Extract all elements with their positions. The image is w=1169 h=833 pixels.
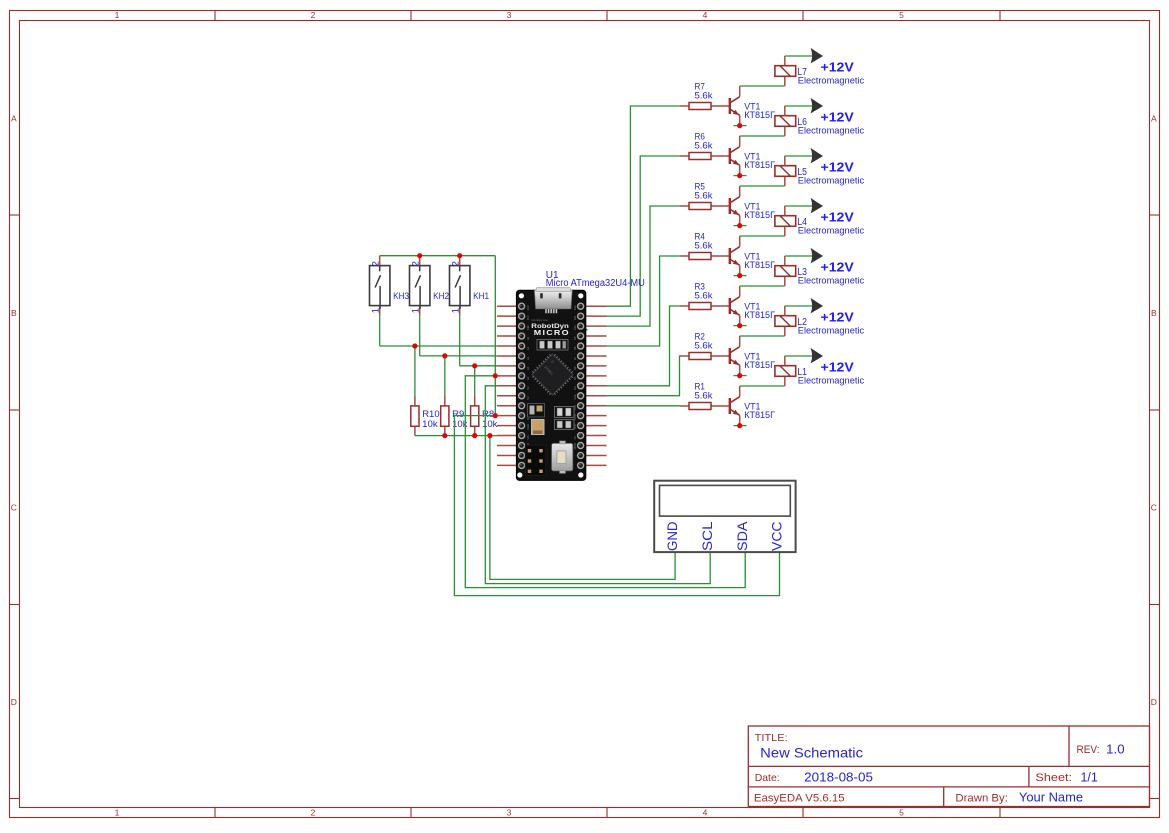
svg-text:2: 2 — [410, 261, 421, 266]
svg-text:Sheet:: Sheet: — [1035, 772, 1072, 784]
svg-text:TITLE:: TITLE: — [755, 732, 788, 744]
svg-text:КТ815Г: КТ815Г — [744, 310, 775, 321]
svg-text:1: 1 — [450, 308, 461, 313]
svg-text:КТ815Г: КТ815Г — [744, 260, 775, 271]
svg-text:GND: GND — [526, 424, 530, 430]
svg-text:КТ815Г: КТ815Г — [744, 410, 775, 421]
svg-text:D8: D8 — [573, 346, 577, 350]
svg-text:REV:: REV: — [1077, 744, 1100, 756]
svg-text:D6: D6 — [573, 366, 577, 370]
svg-text:Electromagnetic: Electromagnetic — [798, 76, 865, 87]
svg-text:D: D — [1151, 697, 1157, 707]
svg-text:2: 2 — [311, 808, 316, 818]
svg-text:A4: A4 — [526, 376, 530, 380]
svg-text:Drawn By:: Drawn By: — [955, 792, 1008, 804]
svg-text:КТ815Г: КТ815Г — [744, 160, 775, 171]
svg-text:KH1: KH1 — [473, 291, 489, 302]
svg-text:D: D — [11, 697, 17, 707]
svg-text:10k: 10k — [482, 419, 498, 430]
svg-text:3V3: 3V3 — [526, 315, 530, 320]
svg-text:KH3: KH3 — [393, 291, 409, 302]
svg-text:5: 5 — [899, 10, 904, 20]
svg-text:+12V: +12V — [821, 210, 855, 224]
svg-text:+12V: +12V — [821, 110, 855, 124]
svg-text:EasyEDA V5.6.15: EasyEDA V5.6.15 — [754, 792, 845, 804]
svg-text:B: B — [1151, 308, 1157, 318]
svg-text:Date:: Date: — [755, 772, 780, 784]
svg-text:SS: SS — [573, 436, 577, 440]
svg-text:1: 1 — [115, 808, 120, 818]
svg-text:D11: D11 — [573, 315, 577, 320]
svg-text:New Schematic: New Schematic — [760, 744, 863, 760]
svg-text:D7: D7 — [573, 356, 577, 360]
svg-text:MOSI: MOSI — [573, 443, 577, 450]
svg-text:5.6k: 5.6k — [695, 390, 713, 401]
svg-text:+12V: +12V — [821, 160, 855, 174]
svg-text:2: 2 — [370, 261, 381, 266]
svg-text:1: 1 — [410, 308, 421, 313]
svg-text:D5: D5 — [573, 376, 577, 380]
svg-text:A1: A1 — [526, 346, 530, 350]
svg-text:1.0: 1.0 — [1106, 742, 1124, 756]
svg-text:1: 1 — [115, 10, 120, 20]
svg-text:+12V: +12V — [821, 60, 855, 74]
svg-text:10k: 10k — [422, 419, 438, 430]
svg-text:A2: A2 — [526, 356, 530, 360]
svg-text:5.6k: 5.6k — [695, 340, 713, 351]
svg-text:D9: D9 — [573, 336, 577, 340]
svg-text:5.6k: 5.6k — [695, 140, 713, 151]
svg-text:Your Name: Your Name — [1019, 791, 1083, 805]
svg-text:4: 4 — [703, 808, 708, 818]
svg-text:Electromagnetic: Electromagnetic — [798, 176, 865, 187]
svg-text:2: 2 — [450, 261, 461, 266]
svg-text:NC: NC — [526, 396, 530, 400]
svg-text:SDA: SDA — [734, 521, 750, 551]
svg-text:A0: A0 — [526, 336, 530, 340]
svg-text:+12V: +12V — [821, 360, 855, 374]
svg-text:2: 2 — [311, 10, 316, 20]
svg-text:GND: GND — [664, 522, 680, 552]
svg-text:VCC: VCC — [768, 522, 784, 552]
svg-text:robotdyn.com: robotdyn.com — [531, 318, 549, 322]
svg-text:5.6k: 5.6k — [695, 90, 713, 101]
svg-text:MICRO: MICRO — [534, 330, 570, 337]
svg-text:КТ815Г: КТ815Г — [744, 110, 775, 121]
svg-text:B: B — [11, 308, 17, 318]
svg-text:C: C — [11, 503, 17, 513]
svg-text:C: C — [1151, 503, 1157, 513]
svg-text:VIN: VIN — [526, 435, 530, 439]
svg-text:КТ815Г: КТ815Г — [744, 210, 775, 221]
svg-text:5.6k: 5.6k — [695, 190, 713, 201]
svg-text:D12: D12 — [573, 305, 577, 310]
svg-text:Micro ATmega32U4-MU: Micro ATmega32U4-MU — [546, 278, 645, 289]
svg-text:+12V: +12V — [821, 260, 855, 274]
svg-text:D4: D4 — [573, 386, 577, 390]
svg-text:5.6k: 5.6k — [695, 240, 713, 251]
svg-text:SAE: SAE — [573, 394, 577, 399]
svg-text:REF: REF — [526, 324, 530, 330]
svg-text:Electromagnetic: Electromagnetic — [798, 226, 865, 237]
svg-text:1/1: 1/1 — [1081, 771, 1098, 785]
svg-text:Electromagnetic: Electromagnetic — [798, 276, 865, 287]
svg-text:Electromagnetic: Electromagnetic — [798, 376, 865, 387]
svg-text:4: 4 — [703, 10, 708, 20]
svg-text:3: 3 — [507, 10, 512, 20]
svg-text:D10: D10 — [573, 325, 577, 330]
svg-text:A: A — [11, 113, 17, 123]
svg-text:КТ815Г: КТ815Г — [744, 360, 775, 371]
svg-text:Electromagnetic: Electromagnetic — [798, 126, 865, 137]
svg-text:A: A — [1151, 113, 1157, 123]
svg-text:+12V: +12V — [821, 310, 855, 324]
svg-text:KH2: KH2 — [433, 291, 449, 302]
svg-text:D13: D13 — [526, 305, 530, 310]
svg-text:2018-08-05: 2018-08-05 — [804, 771, 873, 785]
svg-text:5: 5 — [899, 808, 904, 818]
svg-text:SCL: SCL — [699, 521, 715, 551]
svg-text:Electromagnetic: Electromagnetic — [798, 326, 865, 337]
svg-text:A3: A3 — [526, 366, 530, 370]
svg-text:1: 1 — [370, 308, 381, 313]
svg-text:3: 3 — [507, 808, 512, 818]
svg-text:NC: NC — [526, 386, 530, 390]
svg-text:5.6k: 5.6k — [695, 290, 713, 301]
